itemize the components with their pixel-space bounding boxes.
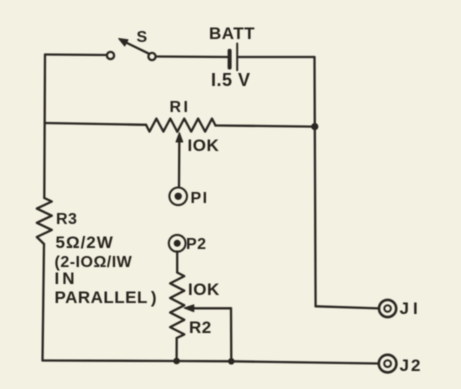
wire left vertical lower [43, 244, 45, 361]
battery BATT [228, 51, 232, 68]
jack J1 [379, 300, 396, 317]
wire right vertical upper [313, 57, 316, 127]
wire wiper down to bottom [230, 308, 233, 361]
svg-text:PI: PI [191, 190, 209, 207]
svg-text:PARALLEL): PARALLEL) [55, 288, 158, 307]
svg-text:P2: P2 [186, 236, 207, 253]
wiper arrow of R2 [193, 307, 231, 309]
terminal P1 [169, 188, 187, 206]
switch S [107, 52, 114, 59]
svg-text:I.5 V: I.5 V [211, 70, 251, 90]
wire bottom rail [43, 361, 379, 364]
svg-text:IOK: IOK [188, 136, 220, 155]
svg-text:RI: RI [170, 99, 191, 116]
jack J2 [379, 355, 397, 373]
terminal P2 [169, 235, 186, 252]
wire top-left horizontal [45, 53, 106, 56]
svg-text:IN: IN [55, 269, 78, 288]
resistor R2 [170, 273, 184, 339]
resistor R1 [146, 119, 216, 132]
svg-text:S: S [137, 29, 148, 46]
wire left vertical [43, 55, 46, 199]
svg-text:JI: JI [400, 299, 422, 318]
wire right vertical lower [314, 127, 317, 307]
junction node at right vertical [311, 123, 318, 130]
svg-text:BATT: BATT [209, 24, 255, 43]
wire switch to battery [156, 55, 228, 58]
svg-text:R3: R3 [56, 211, 77, 228]
svg-text:J2: J2 [400, 356, 423, 375]
wire to J1 [316, 306, 379, 308]
resistor R3 [37, 198, 52, 244]
wire P2 to R2 [176, 251, 178, 272]
svg-text:5Ω/2W: 5Ω/2W [56, 233, 114, 252]
wire battery to right corner [239, 56, 315, 58]
junction node wiper bottom [228, 358, 235, 365]
wire R1 to junction [216, 126, 315, 127]
svg-text:R2: R2 [189, 318, 212, 337]
wiper arrow of R1 [178, 142, 181, 187]
wire row R1 [45, 123, 146, 125]
junction node R2 bottom [173, 358, 180, 365]
svg-text:IOK: IOK [188, 280, 220, 299]
wire R2 bottom [175, 338, 177, 361]
